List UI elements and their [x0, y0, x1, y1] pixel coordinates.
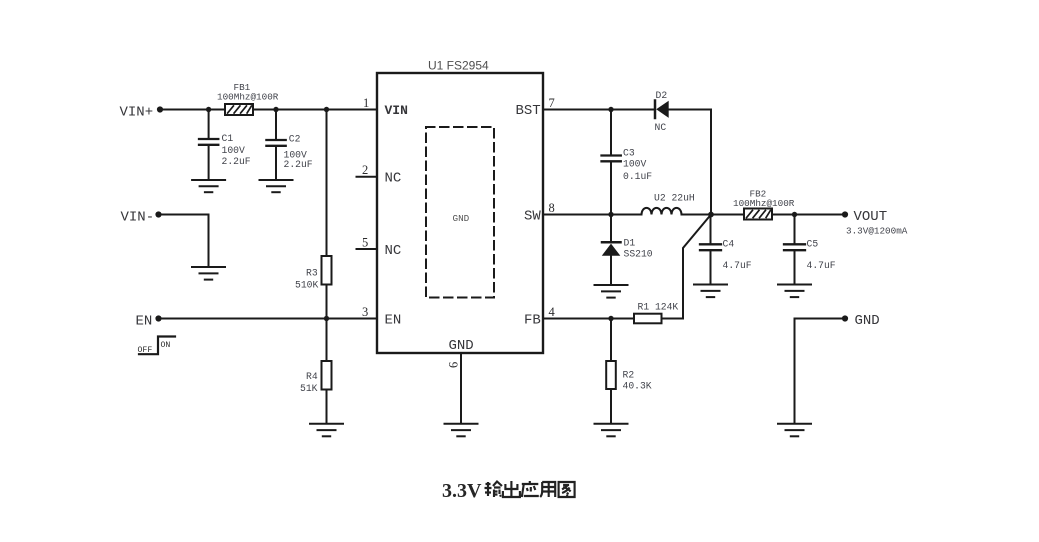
label VIN- [121, 210, 155, 226]
diode D1 [602, 215, 621, 285]
label R2 [623, 370, 635, 381]
svg-text:R1 124K: R1 124K [638, 302, 679, 313]
pin number 7 [549, 96, 555, 110]
resistor R2 [606, 319, 616, 424]
pin number 6 (rotated) [447, 362, 461, 368]
node junction C3 top [608, 107, 613, 112]
resistor R4 [322, 361, 332, 390]
label R1 124K [638, 302, 679, 313]
label FB2 [750, 189, 767, 200]
label C3 [623, 148, 635, 159]
label U1 FS2954 [428, 59, 489, 73]
node junction C1 tap [206, 107, 211, 112]
label R4 [306, 371, 318, 382]
svg-text:SW: SW [524, 209, 541, 225]
resistor R3 [322, 256, 332, 285]
node GND terminal dot [842, 315, 848, 321]
pin number 8 [549, 201, 555, 215]
label 51K [300, 383, 318, 394]
label 100V (C3) [623, 159, 646, 170]
node VIN+ terminal dot [157, 106, 163, 112]
ground under R2 [595, 424, 628, 437]
IC internal dashed GND box [426, 127, 494, 298]
pin number 1 [363, 96, 369, 110]
title glyph 用 [540, 482, 555, 497]
svg-text:4.7uF: 4.7uF [807, 260, 836, 271]
diode D2 [655, 101, 669, 119]
svg-text:U2 22uH: U2 22uH [654, 193, 695, 204]
pin label FB [524, 313, 541, 329]
svg-text:EN: EN [385, 313, 402, 329]
svg-text:R2: R2 [623, 370, 635, 381]
label 100V (C2) [284, 150, 307, 161]
svg-text:D2: D2 [656, 90, 668, 101]
pin label VIN [385, 103, 408, 118]
pin label EN (pin3) [385, 313, 402, 329]
wire inductor to FB2 [682, 214, 745, 216]
svg-text:1: 1 [363, 96, 369, 110]
svg-text:2.2uF: 2.2uF [284, 159, 313, 170]
label FB1 [234, 82, 251, 93]
label D1 [624, 238, 636, 249]
title glyph 输 [485, 482, 503, 498]
node junction C2 tap [273, 107, 278, 112]
svg-text:5: 5 [362, 236, 368, 250]
capacitor C5 [784, 215, 805, 284]
label 100V (C1) [222, 145, 245, 156]
ground under GND stub [778, 424, 811, 437]
wire FB2 to VOUT [772, 214, 845, 216]
node EN terminal dot [155, 315, 161, 321]
title glyph 出 [503, 481, 520, 497]
svg-text:OFF: OFF [138, 346, 153, 355]
wire BST rail [543, 109, 654, 111]
ferrite bead FB1 [225, 104, 253, 115]
label R3 [306, 268, 318, 279]
label D2 [656, 90, 668, 101]
svg-text:C2: C2 [289, 134, 301, 145]
capacitor C1 [199, 110, 218, 180]
svg-text:GND: GND [449, 338, 474, 354]
node junction SW output [708, 212, 714, 218]
pin label BST [516, 103, 541, 119]
pin number 2 [362, 163, 368, 177]
pin 2 stub NC [357, 176, 378, 178]
title 3.3V (latin part) [442, 480, 482, 502]
label GND terminal [855, 313, 880, 329]
title glyph 图 [559, 482, 575, 497]
svg-text:100V: 100V [222, 145, 245, 156]
label 4.7uF (C5) [807, 260, 836, 271]
svg-text:NC: NC [655, 122, 667, 133]
ground under R4 [310, 424, 343, 437]
svg-text:40.3K: 40.3K [623, 381, 652, 392]
node junction SW / D1 / C3 [608, 212, 613, 217]
pin label GND (bottom) [449, 338, 474, 354]
label 3.3V@1200mA [846, 226, 908, 237]
svg-text:4.7uF: 4.7uF [723, 260, 752, 271]
svg-text:4: 4 [549, 305, 556, 319]
wire R3 to R4 [326, 285, 328, 362]
svg-text:2: 2 [362, 163, 368, 177]
svg-text:NC: NC [385, 171, 402, 187]
svg-text:8: 8 [549, 201, 555, 215]
svg-text:7: 7 [549, 96, 555, 110]
svg-text:R3: R3 [306, 268, 318, 279]
label C4 [723, 239, 735, 250]
wire IC pin 6 to ground [460, 353, 462, 423]
label EN terminal [136, 314, 153, 330]
svg-text:3: 3 [362, 305, 368, 319]
capacitor C4 [700, 215, 721, 284]
label 2.2uF (C2) [284, 159, 313, 170]
svg-text:C4: C4 [723, 239, 735, 250]
label 0.1uF (C3) [623, 171, 652, 182]
wire SW node to FB divider (diagonal) [662, 215, 712, 319]
svg-text:D1: D1 [624, 238, 636, 249]
label 2.2uF (C1) [222, 156, 251, 167]
svg-text:C1: C1 [222, 133, 234, 144]
wire GND terminal stub [795, 319, 846, 424]
svg-text:NC: NC [385, 243, 402, 259]
svg-text:51K: 51K [300, 383, 318, 394]
svg-text:GND: GND [453, 213, 470, 224]
inductor U2 [642, 208, 682, 215]
label 4.7uF (C4) [723, 260, 752, 271]
svg-text:100V: 100V [623, 159, 646, 170]
switch level symbol OFF/ON step [139, 337, 175, 355]
capacitor C3 [602, 110, 621, 215]
pin number 4 [549, 305, 556, 319]
label 100Mhz@100R (FB2) [733, 198, 795, 209]
label SS210 [624, 249, 653, 260]
label C2 [289, 134, 301, 145]
svg-text:C3: C3 [623, 148, 635, 159]
svg-text:EN: EN [136, 314, 153, 330]
pin label NC (pin2) [385, 171, 402, 187]
label VOUT [854, 209, 888, 225]
svg-text:U1 FS2954: U1 FS2954 [428, 59, 489, 73]
svg-text:BST: BST [516, 103, 541, 119]
pin label SW [524, 209, 541, 225]
svg-text:VOUT: VOUT [854, 209, 888, 225]
svg-text:SS210: SS210 [624, 249, 653, 260]
node VIN- terminal dot [155, 211, 161, 217]
node VOUT terminal dot [842, 211, 848, 217]
svg-text:VIN-: VIN- [121, 210, 155, 226]
wire SW rail [543, 214, 642, 216]
svg-text:GND: GND [855, 313, 880, 329]
capacitor C2 [266, 110, 285, 180]
svg-text:100Mhz@100R: 100Mhz@100R [217, 92, 279, 103]
pin number 3 [362, 305, 368, 319]
svg-text:100Mhz@100R: 100Mhz@100R [733, 198, 795, 209]
ground under D1 [595, 285, 628, 298]
svg-text:6: 6 [447, 362, 461, 368]
pin 5 stub NC [357, 248, 378, 250]
svg-text:R4: R4 [306, 371, 318, 382]
resistor R1 [634, 314, 662, 324]
node junction R3 bus tap [324, 107, 329, 112]
title glyph 应 [522, 481, 539, 497]
IC U1 body [377, 73, 543, 353]
ferrite bead FB2 [744, 209, 772, 220]
label U2 22uH [654, 193, 695, 204]
label OFF [138, 346, 153, 355]
wire EN rail [159, 318, 378, 320]
label GND inside dashed box [453, 213, 470, 224]
label C1 [222, 133, 234, 144]
node junction C5 tap [792, 212, 797, 217]
wire FB rail [543, 318, 634, 320]
ground under C1 [192, 180, 225, 192]
svg-text:2.2uF: 2.2uF [222, 156, 251, 167]
node junction EN / R3 / R4 [324, 316, 329, 321]
svg-text:FB: FB [524, 313, 541, 329]
wire VIN- stub [159, 215, 209, 267]
svg-text:ON: ON [161, 341, 171, 350]
svg-text:VIN: VIN [385, 103, 408, 118]
wire R4 to ground [326, 390, 328, 424]
label NC (D2) [655, 122, 667, 133]
label VIN+ [120, 105, 154, 121]
svg-text:3.3V: 3.3V [442, 480, 482, 502]
wire D2 to SW node corner [669, 110, 711, 215]
wire VIN+ rail [160, 109, 377, 111]
svg-text:VIN+: VIN+ [120, 105, 154, 121]
node junction FB / R1 / R2 [608, 316, 613, 321]
label 100Mhz@100R (FB1) [217, 92, 279, 103]
svg-text:0.1uF: 0.1uF [623, 171, 652, 182]
ground under C5 [778, 285, 811, 298]
svg-text:510K: 510K [295, 280, 318, 291]
wire R3 bus vertical [326, 110, 328, 257]
label ON [161, 341, 171, 350]
pin number 5 [362, 236, 368, 250]
label C5 [807, 239, 819, 250]
svg-text:3.3V@1200mA: 3.3V@1200mA [846, 226, 908, 237]
svg-text:C5: C5 [807, 239, 819, 250]
ground under C2 [260, 180, 293, 192]
label 510K [295, 280, 318, 291]
pin label NC (pin5) [385, 243, 402, 259]
ground under VIN- [192, 267, 225, 280]
label 40.3K [623, 381, 652, 392]
ground under pin 6 [445, 424, 478, 437]
ground under C4 [694, 285, 727, 298]
